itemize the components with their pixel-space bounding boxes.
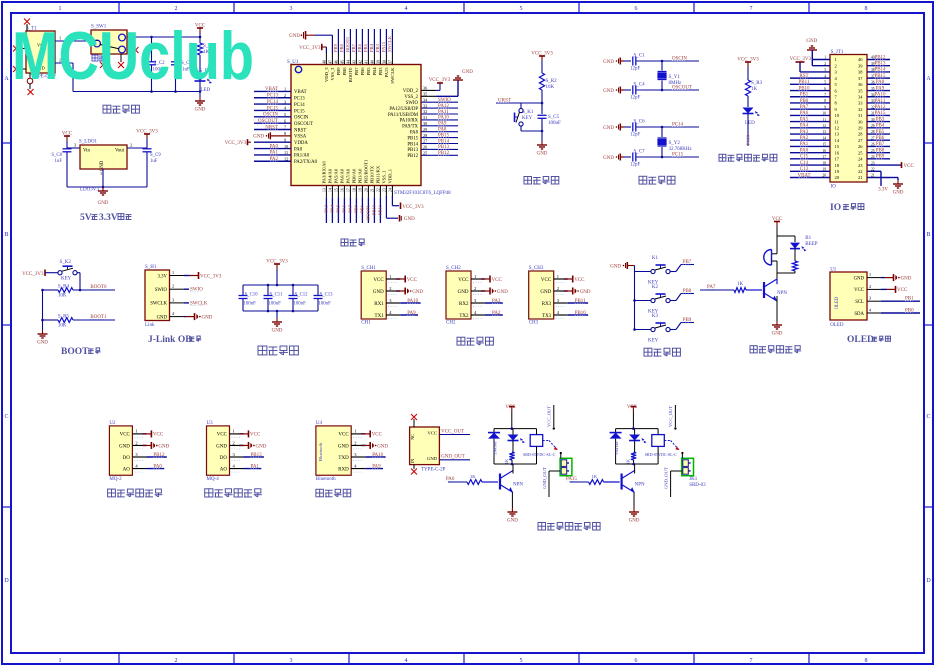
svg-text:VSS_2: VSS_2 (404, 95, 418, 100)
svg-text:1: 1 (59, 6, 62, 12)
svg-text:VSS_3: VSS_3 (330, 67, 335, 81)
svg-text:12pF: 12pF (630, 163, 641, 168)
svg-text:PA0: PA0 (294, 147, 303, 152)
svg-text:PA8: PA8 (410, 131, 419, 136)
svg-text:1uF: 1uF (55, 159, 63, 164)
svg-text:SWIO: SWIO (190, 288, 203, 293)
svg-text:VCC: VCC (458, 278, 469, 283)
svg-text:TYPE-C-2P: TYPE-C-2P (421, 468, 446, 473)
svg-text:S_U1: S_U1 (287, 60, 299, 65)
svg-text:SDA: SDA (854, 312, 864, 317)
svg-text:10K: 10K (58, 294, 67, 299)
svg-text:PA2/TX/A0: PA2/TX/A0 (294, 160, 318, 165)
svg-text:K2: K2 (652, 285, 659, 290)
svg-text:37: 37 (388, 60, 392, 64)
svg-text:VCC: VCC (373, 278, 384, 283)
svg-text:VCC_OUT: VCC_OUT (547, 406, 552, 427)
svg-text:TX1: TX1 (375, 314, 385, 319)
svg-text:18: 18 (352, 188, 356, 192)
svg-text:SCL: SCL (855, 300, 864, 305)
svg-text:Link: Link (145, 323, 155, 328)
svg-text:100nF: 100nF (294, 302, 307, 307)
svg-text:29: 29 (858, 126, 863, 131)
svg-text:URST: URST (498, 99, 511, 104)
svg-text:VDD_3: VDD_3 (324, 67, 329, 82)
svg-text:6: 6 (635, 6, 638, 12)
svg-text:PB4: PB4 (369, 43, 374, 52)
svg-text:U4: U4 (316, 421, 323, 426)
svg-text:23: 23 (382, 188, 386, 192)
svg-text:VDD_2: VDD_2 (403, 89, 419, 94)
svg-text:VCC_3V3: VCC_3V3 (299, 46, 321, 51)
svg-text:B: B (4, 232, 8, 238)
svg-text:GND: GND (893, 191, 904, 196)
svg-text:10: 10 (835, 113, 840, 118)
svg-text:GND: GND (404, 217, 415, 222)
svg-text:C15: C15 (800, 155, 809, 160)
svg-text:7: 7 (750, 658, 753, 664)
svg-text:NRST: NRST (294, 128, 306, 133)
svg-text:RXD: RXD (338, 467, 349, 472)
svg-text:47: 47 (328, 60, 332, 64)
svg-text:21: 21 (370, 188, 374, 192)
svg-text:PA5/A0: PA5/A0 (333, 168, 338, 183)
svg-text:GND_OUT: GND_OUT (663, 467, 668, 489)
svg-text:GND: GND (119, 444, 130, 449)
svg-text:41: 41 (364, 60, 368, 64)
svg-text:1: 1 (835, 57, 837, 62)
svg-text:3.3V: 3.3V (158, 274, 168, 279)
svg-text:1: 1 (100, 171, 102, 176)
svg-text:11: 11 (835, 119, 839, 124)
svg-text:OSCOUT: OSCOUT (294, 122, 313, 127)
svg-text:CH1: CH1 (361, 321, 371, 326)
svg-text:K3: K3 (652, 314, 659, 319)
svg-text:S_H1: S_H1 (145, 265, 157, 270)
svg-text:GND: GND (202, 315, 213, 320)
svg-text:BOOT1: BOOT1 (365, 204, 370, 220)
svg-text:7: 7 (750, 6, 753, 12)
svg-text:VCC_3V3: VCC_3V3 (200, 274, 222, 279)
svg-text:GND_OUT: GND_OUT (441, 454, 465, 459)
svg-text:100nF: 100nF (548, 121, 561, 126)
svg-text:VDD_1: VDD_1 (387, 168, 392, 183)
svg-text:PA6/A0: PA6/A0 (339, 168, 344, 183)
svg-text:12pF: 12pF (630, 96, 641, 101)
svg-text:40: 40 (370, 60, 374, 64)
svg-text:PA9/TX: PA9/TX (402, 125, 418, 130)
svg-text:PA8: PA8 (876, 80, 885, 85)
svg-text:PB15: PB15 (407, 136, 418, 141)
svg-text:NPN: NPN (513, 483, 523, 488)
svg-text:SRD-05VDC-SL-C: SRD-05VDC-SL-C (645, 452, 678, 457)
svg-text:S_C11: S_C11 (270, 293, 283, 298)
svg-text:S_R5: S_R5 (58, 315, 70, 320)
svg-text:PA6: PA6 (341, 204, 346, 212)
svg-text:39: 39 (376, 60, 380, 64)
svg-text:S_C1: S_C1 (634, 54, 646, 59)
svg-text:3: 3 (290, 658, 293, 664)
svg-text:GND: GND (507, 519, 518, 524)
svg-text:1K: 1K (626, 459, 631, 464)
svg-text:GND: GND (610, 264, 621, 269)
svg-text:GND: GND (253, 135, 264, 140)
svg-text:100nF: 100nF (319, 302, 332, 307)
svg-text:CH2: CH2 (446, 321, 456, 326)
svg-text:PA10/RX: PA10/RX (400, 119, 419, 124)
svg-text:3: 3 (172, 297, 174, 302)
svg-text:PA11/USB/DM: PA11/USB/DM (388, 113, 419, 118)
svg-text:PC13: PC13 (294, 97, 305, 102)
svg-text:38: 38 (858, 70, 863, 75)
svg-text:GND: GND (901, 276, 912, 281)
svg-text:32.768KHz: 32.768KHz (669, 147, 693, 152)
svg-text:RX1: RX1 (374, 302, 384, 307)
svg-text:GND: GND (195, 108, 206, 113)
svg-text:IO: IO (831, 185, 837, 190)
svg-text:S_CH2: S_CH2 (446, 266, 461, 271)
svg-text:PB11/RX: PB11/RX (375, 165, 380, 183)
svg-text:2: 2 (354, 440, 356, 445)
svg-text:3: 3 (290, 6, 293, 12)
svg-text:2: 2 (130, 143, 132, 148)
svg-text:3.3V: 3.3V (878, 188, 888, 193)
svg-text:3.3V: 3.3V (99, 213, 118, 223)
svg-text:NC: NC (410, 434, 415, 440)
svg-text:SWIO: SWIO (406, 101, 419, 106)
svg-text:35: 35 (858, 88, 863, 93)
svg-text:PA3/RX/A0: PA3/RX/A0 (321, 161, 326, 184)
svg-text:PA7/A0: PA7/A0 (345, 168, 350, 183)
svg-text:PA3: PA3 (800, 130, 809, 135)
svg-text:1N4148: 1N4148 (614, 442, 619, 456)
svg-text:BOOT0: BOOT0 (348, 67, 353, 83)
svg-text:4: 4 (405, 6, 408, 12)
svg-text:S_K2: S_K2 (60, 260, 72, 265)
svg-text:5: 5 (520, 658, 523, 664)
svg-text:MQ-4: MQ-4 (207, 477, 220, 482)
svg-text:NPN: NPN (635, 483, 645, 488)
svg-text:SWIO: SWIO (155, 288, 168, 293)
svg-text:TXD: TXD (338, 456, 349, 461)
svg-text:44: 44 (346, 60, 350, 64)
svg-text:1K: 1K (504, 459, 509, 464)
svg-text:16: 16 (340, 188, 344, 192)
svg-text:S_C10: S_C10 (245, 293, 259, 298)
svg-text:SWCLK: SWCLK (150, 302, 167, 307)
svg-text:S_C4: S_C4 (634, 83, 646, 88)
svg-text:BEEP: BEEP (805, 242, 817, 247)
svg-text:GND: GND (462, 70, 473, 75)
svg-text:S_CH1: S_CH1 (361, 266, 376, 271)
svg-text:PA7: PA7 (800, 105, 809, 110)
svg-text:1: 1 (233, 429, 235, 434)
svg-text:10K: 10K (546, 85, 555, 90)
svg-text:S_R3: S_R3 (751, 81, 763, 86)
svg-text:PA5: PA5 (800, 117, 809, 122)
svg-text:SRD-05VDC-SL-C: SRD-05VDC-SL-C (523, 452, 556, 457)
svg-text:GND: GND (629, 519, 640, 524)
svg-text:PC14: PC14 (294, 103, 305, 108)
svg-text:PB10: PB10 (371, 204, 376, 215)
svg-text:12pF: 12pF (630, 133, 641, 138)
svg-text:S_Y1: S_Y1 (669, 75, 681, 80)
svg-text:GND: GND (772, 332, 783, 337)
svg-text:S_Y2: S_Y2 (669, 141, 681, 146)
svg-text:GND: GND (458, 290, 469, 295)
svg-text:A: A (4, 76, 9, 82)
svg-text:S_K1: S_K1 (522, 110, 534, 115)
svg-text:B1: B1 (805, 236, 811, 241)
svg-text:37: 37 (858, 76, 863, 81)
svg-text:SRD-03: SRD-03 (689, 483, 706, 488)
svg-text:2: 2 (233, 440, 235, 445)
svg-text:BOOT: BOOT (61, 347, 89, 357)
svg-text:VCC: VCC (120, 433, 131, 438)
svg-text:21: 21 (858, 175, 863, 180)
svg-text:1K: 1K (737, 282, 744, 287)
svg-text:OLED: OLED (830, 323, 844, 328)
svg-text:GND: GND (854, 276, 865, 281)
svg-text:32: 32 (858, 107, 863, 112)
svg-text:IO: IO (830, 203, 841, 213)
svg-text:36: 36 (858, 82, 863, 87)
svg-text:1: 1 (389, 274, 391, 279)
svg-text:100nF: 100nF (244, 302, 257, 307)
svg-text:BOOT0: BOOT0 (345, 36, 350, 52)
svg-text:5: 5 (520, 6, 523, 12)
svg-text:GND: GND (603, 156, 614, 161)
svg-text:2: 2 (172, 284, 174, 289)
svg-text:2: 2 (835, 63, 837, 68)
svg-text:S_C12: S_C12 (295, 293, 309, 298)
svg-text:VSS_1: VSS_1 (381, 170, 386, 184)
svg-text:VCC_3V3: VCC_3V3 (402, 205, 424, 210)
svg-text:JK1: JK1 (689, 477, 698, 482)
svg-text:VCC: VCC (407, 278, 418, 283)
svg-text:VCC: VCC (897, 288, 908, 293)
svg-text:2: 2 (135, 440, 137, 445)
svg-text:PB7: PB7 (351, 43, 356, 52)
svg-text:RX3: RX3 (542, 302, 552, 307)
svg-text:1N4148: 1N4148 (493, 442, 498, 456)
svg-text:PA9: PA9 (876, 86, 885, 91)
svg-text:1: 1 (135, 429, 137, 434)
svg-text:PA0: PA0 (800, 148, 809, 153)
svg-text:1K: 1K (470, 474, 476, 479)
svg-text:PB0/A0: PB0/A0 (351, 168, 356, 184)
svg-text:S_JT1: S_JT1 (831, 50, 844, 55)
svg-text:Bluetooth: Bluetooth (318, 442, 323, 461)
svg-text:1uF: 1uF (150, 159, 158, 164)
svg-text:GND: GND (98, 201, 109, 206)
svg-text:1: 1 (557, 274, 559, 279)
svg-text:3: 3 (74, 143, 76, 148)
svg-text:U2: U2 (109, 421, 116, 426)
svg-text:Vout: Vout (115, 149, 125, 154)
svg-text:20: 20 (835, 175, 840, 180)
svg-text:18: 18 (835, 163, 840, 168)
svg-text:23: 23 (858, 163, 863, 168)
svg-text:6: 6 (635, 658, 638, 664)
svg-text:PC15: PC15 (294, 109, 305, 114)
svg-text:2: 2 (557, 286, 559, 291)
svg-text:PA7: PA7 (347, 204, 352, 212)
svg-text:GND: GND (497, 290, 508, 295)
svg-text:PB3: PB3 (378, 67, 383, 76)
svg-text:2: 2 (175, 658, 178, 664)
svg-text:OLED: OLED (847, 335, 874, 345)
svg-text:38: 38 (382, 60, 386, 64)
svg-text:Vin: Vin (83, 149, 91, 154)
svg-text:GND: GND (377, 444, 388, 449)
svg-text:PA15: PA15 (384, 67, 389, 78)
svg-text:19: 19 (835, 169, 840, 174)
svg-text:C: C (926, 414, 930, 420)
svg-text:VCC: VCC (62, 132, 73, 137)
svg-text:39: 39 (858, 63, 863, 68)
svg-text:24: 24 (858, 157, 863, 162)
svg-text:PA1/A0: PA1/A0 (294, 154, 310, 159)
svg-text:30: 30 (858, 119, 863, 124)
svg-text:1: 1 (59, 658, 62, 664)
svg-text:KEY: KEY (61, 277, 72, 282)
svg-text:C: C (4, 414, 8, 420)
svg-text:GND: GND (373, 290, 384, 295)
svg-text:U1: U1 (830, 268, 837, 273)
svg-text:PA2: PA2 (800, 136, 809, 141)
svg-text:1K: 1K (751, 87, 758, 92)
svg-text:GND: GND (256, 444, 267, 449)
svg-text:VCC: VCC (904, 164, 915, 169)
svg-text:S_CH3: S_CH3 (529, 266, 544, 271)
svg-text:S_LDO1: S_LDO1 (79, 140, 98, 145)
svg-text:15: 15 (334, 188, 338, 192)
svg-text:OLED: OLED (835, 296, 840, 309)
svg-text:PB6: PB6 (360, 67, 365, 76)
svg-text:GND: GND (540, 290, 551, 295)
svg-text:VCC: VCC (428, 431, 437, 436)
svg-text:S_C6: S_C6 (634, 120, 646, 125)
svg-text:PB8: PB8 (342, 67, 347, 76)
svg-text:1: 1 (474, 274, 476, 279)
svg-text:PA5: PA5 (335, 204, 340, 212)
svg-text:VCC_3V3: VCC_3V3 (737, 58, 759, 63)
svg-text:PB10/TX: PB10/TX (369, 165, 374, 183)
svg-text:PA4: PA4 (800, 124, 809, 129)
svg-text:C13: C13 (800, 167, 809, 172)
svg-text:2: 2 (474, 286, 476, 291)
svg-text:27: 27 (858, 138, 863, 143)
svg-text:19: 19 (358, 188, 362, 192)
svg-text:12: 12 (835, 126, 840, 131)
svg-text:48: 48 (322, 60, 326, 64)
svg-text:GND: GND (427, 456, 438, 461)
svg-text:K1: K1 (652, 256, 659, 261)
svg-text:GND: GND (603, 60, 614, 65)
svg-text:LED: LED (745, 121, 755, 126)
svg-text:PB2/BOOT1: PB2/BOOT1 (363, 159, 368, 184)
svg-text:D: D (4, 578, 9, 584)
svg-text:CH3: CH3 (529, 321, 539, 326)
svg-text:TX3: TX3 (542, 314, 552, 319)
svg-text:S_C8: S_C8 (51, 153, 62, 158)
svg-text:KEY: KEY (522, 116, 533, 121)
svg-text:SWCLK: SWCLK (387, 35, 392, 52)
svg-text:VSSA: VSSA (294, 135, 307, 140)
svg-text:25: 25 (858, 150, 863, 155)
svg-text:C14: C14 (800, 161, 809, 166)
svg-text:GND: GND (806, 39, 817, 44)
svg-text:VCC: VCC (541, 278, 552, 283)
svg-text:VCC_3V3: VCC_3V3 (22, 272, 44, 277)
svg-text:KEY: KEY (648, 339, 659, 344)
svg-text:NPN: NPN (777, 291, 787, 296)
svg-text:13: 13 (322, 188, 326, 192)
svg-text:14: 14 (835, 138, 840, 143)
svg-text:1K: 1K (592, 474, 598, 479)
svg-text:PB1/A0: PB1/A0 (357, 168, 362, 184)
svg-text:26: 26 (858, 144, 863, 149)
svg-text:GND: GND (289, 34, 300, 39)
svg-text:14: 14 (328, 188, 332, 192)
svg-text:PB5: PB5 (363, 43, 368, 52)
svg-text:VCC: VCC (217, 433, 228, 438)
svg-text:S_R4: S_R4 (58, 284, 70, 289)
svg-text:GND: GND (412, 290, 423, 295)
svg-text:GND_OUT: GND_OUT (542, 467, 547, 489)
svg-text:PB11: PB11 (377, 204, 382, 215)
svg-text:VCC: VCC (372, 433, 383, 438)
svg-text:1: 1 (869, 272, 871, 277)
svg-text:GND: GND (603, 126, 614, 131)
svg-text:VCC_3V3: VCC_3V3 (429, 78, 451, 83)
svg-text:U3: U3 (207, 421, 214, 426)
svg-text:17: 17 (835, 157, 840, 162)
svg-text:VCC_3V3: VCC_3V3 (136, 130, 158, 135)
svg-text:24: 24 (388, 188, 392, 192)
svg-text:PC13: PC13 (746, 134, 751, 145)
svg-text:S_C13: S_C13 (320, 293, 334, 298)
svg-text:34: 34 (858, 94, 863, 99)
svg-text:4: 4 (405, 658, 408, 664)
svg-text:VCC: VCC (854, 288, 864, 293)
svg-text:VCC: VCC (505, 405, 516, 410)
svg-text:PB5: PB5 (366, 67, 371, 76)
svg-text:VBAT: VBAT (294, 90, 307, 95)
svg-text:2: 2 (175, 6, 178, 12)
svg-text:22: 22 (858, 169, 863, 174)
svg-text:PA4/A0: PA4/A0 (327, 168, 332, 183)
svg-text:8: 8 (865, 658, 868, 664)
svg-text:PB7: PB7 (354, 67, 359, 76)
svg-text:VCC: VCC (627, 405, 638, 410)
svg-text:OSCIN: OSCIN (294, 116, 309, 121)
svg-text:VCC_3V3: VCC_3V3 (225, 141, 247, 146)
svg-text:TX2: TX2 (459, 314, 469, 319)
svg-text:VCC: VCC (250, 433, 261, 438)
svg-text:MQ-2: MQ-2 (109, 477, 122, 482)
svg-text:VCC_OUT: VCC_OUT (668, 406, 673, 427)
svg-text:GND: GND (37, 341, 48, 346)
svg-text:B: B (926, 232, 930, 238)
svg-text:PB0: PB0 (353, 204, 358, 213)
svg-text:46: 46 (334, 60, 338, 64)
svg-text:PA4: PA4 (329, 204, 334, 212)
svg-text:GND: GND (158, 444, 169, 449)
svg-text:D: D (926, 578, 931, 584)
svg-text:VCC: VCC (772, 217, 783, 222)
